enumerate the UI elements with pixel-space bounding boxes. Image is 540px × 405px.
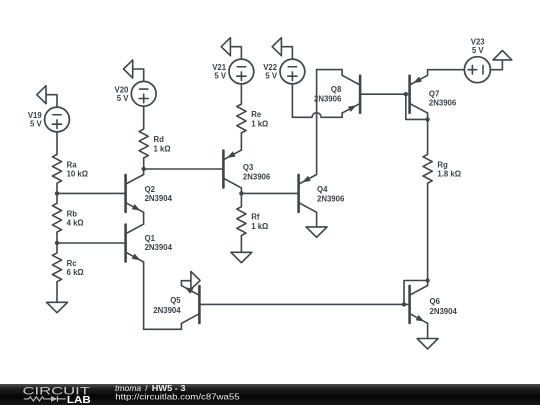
wire Q5 base to Q6 base <box>199 303 409 305</box>
voltage source V19 <box>45 107 70 132</box>
wire hop over Q8-Q4 net <box>312 113 321 118</box>
node flag (V19 top) <box>37 86 57 107</box>
svg-text:Q8: Q8 <box>331 85 342 94</box>
label V21 value <box>212 63 227 81</box>
wire node A to Q2 base <box>57 192 126 194</box>
wire Q8 base to Q7 <box>360 93 410 95</box>
label Ra <box>67 160 88 178</box>
wire hop to Q8 emitter <box>321 116 342 118</box>
wire Q8 collector stub <box>341 70 343 76</box>
transistor Q7 2N3906 <box>410 75 428 113</box>
label Rg <box>437 160 461 178</box>
wire Q7 base-collector tie <box>406 94 428 119</box>
wire node B to Rc <box>56 243 58 253</box>
transistor Q8 2N3906 <box>342 75 360 113</box>
svg-text:2N3904: 2N3904 <box>153 306 181 315</box>
svg-text:Re: Re <box>251 110 262 119</box>
wire Q1 emitter down <box>143 262 145 329</box>
svg-text:Q5: Q5 <box>170 296 181 305</box>
svg-text:2N3906: 2N3906 <box>243 173 271 182</box>
wire Q7 emitter to V23 <box>428 69 465 71</box>
transistor Q3 2N3906 <box>223 150 241 188</box>
label Q2 <box>145 185 173 203</box>
node flag (Q5 emitter) <box>181 272 200 290</box>
svg-text:1 kΩ: 1 kΩ <box>251 222 268 231</box>
svg-text:LAB: LAB <box>67 395 91 405</box>
wire node C to Q3 base <box>144 168 224 170</box>
svg-text:6 kΩ: 6 kΩ <box>67 268 84 277</box>
voltage source V20 <box>131 81 156 106</box>
transistor Q6 2N3904 <box>410 286 428 324</box>
label Rc <box>67 259 84 277</box>
label V22 value <box>263 63 278 81</box>
node flag (V22 top) <box>272 38 292 59</box>
transistor Q1 2N3904 <box>126 224 144 262</box>
label Q8 <box>314 85 342 103</box>
wire V20 to Rd <box>143 106 145 129</box>
node B junction <box>55 241 59 245</box>
wire node D to Q4 base <box>241 192 298 194</box>
svg-text:Rc: Rc <box>67 259 78 268</box>
resistor Ra <box>52 154 61 183</box>
wire Q8 collector left <box>317 69 343 71</box>
svg-text:Q1: Q1 <box>145 234 156 243</box>
svg-text:1.8 kΩ: 1.8 kΩ <box>437 170 461 179</box>
label Re <box>251 110 268 128</box>
svg-text:2N3904: 2N3904 <box>145 243 173 252</box>
ground (below Rc) <box>47 302 68 312</box>
svg-text:Rf: Rf <box>251 213 260 222</box>
node E junction <box>404 92 408 96</box>
node A junction <box>55 191 59 195</box>
svg-text:5 V: 5 V <box>30 120 43 129</box>
wire Q5 collector stub <box>180 323 182 329</box>
wire Q3 collector to node D <box>240 188 242 194</box>
wire to Q5 collector <box>144 328 182 330</box>
label Q1 <box>145 234 173 252</box>
node flag (V20 top) <box>124 60 144 81</box>
wire Rc to ground <box>56 282 58 303</box>
svg-text:4 kΩ: 4 kΩ <box>67 219 84 228</box>
resistor Rg <box>423 154 432 183</box>
footer title line <box>115 383 240 402</box>
ground (below Rf) <box>231 252 252 262</box>
svg-text:1 kΩ: 1 kΩ <box>251 119 268 128</box>
wire Q5 collector stub <box>0 0 1 1</box>
label Rb <box>67 209 84 227</box>
transistor Q4 2N3906 <box>299 175 317 213</box>
svg-text:V21: V21 <box>212 63 227 72</box>
resistor Rb <box>52 203 61 232</box>
svg-text:Q7: Q7 <box>429 90 439 99</box>
svg-text:2N3906: 2N3906 <box>314 95 342 104</box>
wire Rb to node B <box>56 232 58 243</box>
svg-text:5 V: 5 V <box>472 46 485 55</box>
wire node A to Rb <box>56 193 58 203</box>
svg-text:http://circuitlab.com/c87wa55: http://circuitlab.com/c87wa55 <box>115 391 240 401</box>
label Q6 <box>430 297 458 316</box>
label Rd <box>154 135 171 153</box>
wire Re to V21 <box>240 84 242 104</box>
wire V19 to Ra <box>56 132 58 155</box>
label Q5 <box>153 296 181 315</box>
resistor Rc <box>52 253 61 282</box>
voltage source V21 <box>229 59 254 84</box>
wire node F to Rg <box>427 119 429 154</box>
wire Q2 emitter to Q1 collector <box>143 212 145 224</box>
svg-text:10 kΩ: 10 kΩ <box>67 170 88 179</box>
resistor Rf <box>237 207 246 236</box>
wire Q2 collector to node C <box>143 169 145 175</box>
wire Q3 emitter to Re <box>240 133 242 150</box>
svg-text:5 V: 5 V <box>117 94 130 103</box>
wire Q6 base-collector tie <box>404 281 428 305</box>
svg-text:2N3904: 2N3904 <box>430 307 458 316</box>
wire Ra to node A <box>56 183 58 193</box>
svg-text:1 kΩ: 1 kΩ <box>154 144 171 153</box>
wire Q6 emitter down <box>427 323 429 338</box>
svg-text:V20: V20 <box>115 85 130 94</box>
wire Q7 collector stub <box>427 113 429 119</box>
svg-text:2N3906: 2N3906 <box>429 98 457 107</box>
svg-text:Q3: Q3 <box>243 163 254 172</box>
ground (below Q4) <box>306 227 327 237</box>
svg-text:5 V: 5 V <box>265 72 278 81</box>
label V19 value <box>28 111 43 129</box>
svg-text:Q6: Q6 <box>430 297 441 306</box>
svg-text:Rd: Rd <box>154 135 165 144</box>
wire Q7 emitter stub <box>427 70 429 76</box>
svg-text:Q4: Q4 <box>317 185 328 194</box>
wire Rd to node C <box>143 158 145 169</box>
wire Q8 emitter stub <box>341 113 343 117</box>
svg-text:Rb: Rb <box>67 209 78 218</box>
wire V22 down <box>291 84 293 117</box>
label Rf <box>251 213 268 231</box>
ground (below Q6) <box>417 339 438 349</box>
label V23 value <box>471 37 486 55</box>
label Q4 <box>317 185 345 204</box>
wire Rf to ground <box>240 236 242 253</box>
wire V22 to hop <box>292 116 312 118</box>
svg-text:5 V: 5 V <box>214 72 227 81</box>
svg-text:2N3906: 2N3906 <box>317 195 345 204</box>
wire Rg to Q6 collector node <box>427 183 429 280</box>
node flag (V21 top) <box>221 38 241 59</box>
label Q7 <box>429 90 457 108</box>
svg-text:Q2: Q2 <box>145 185 156 194</box>
svg-text:Ra: Ra <box>67 160 78 169</box>
wire node B to Q1 base <box>57 242 126 244</box>
wire node D to Rf <box>240 193 242 206</box>
transistor Q2 2N3904 <box>126 175 144 213</box>
resistor Rd <box>139 129 148 158</box>
svg-text:Rg: Rg <box>437 160 448 169</box>
voltage source V23 <box>464 57 490 83</box>
wire Q4 collector down <box>316 212 318 227</box>
node D junction <box>239 191 243 195</box>
svg-text:2N3904: 2N3904 <box>145 194 173 203</box>
svg-text:V19: V19 <box>28 111 43 120</box>
resistor Re <box>237 104 246 133</box>
label Q3 <box>243 163 271 182</box>
node H junction <box>425 278 429 282</box>
wire Q6 collector stub <box>427 281 429 286</box>
transistor Q5 2N3904 <box>181 286 199 324</box>
node C junction <box>142 167 146 171</box>
node flag (V23 right) <box>490 51 511 70</box>
voltage source V22 <box>280 59 305 84</box>
svg-text:V22: V22 <box>263 63 278 72</box>
CircuitLab logo wordmark <box>23 385 91 405</box>
node G junction <box>402 302 406 306</box>
node F junction <box>425 117 429 121</box>
wire down to Q4 emitter <box>316 70 318 175</box>
label V20 value <box>115 85 130 103</box>
